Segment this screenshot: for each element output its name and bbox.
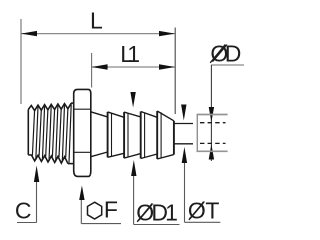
arrowhead L1 left <box>92 64 108 69</box>
svg-text:L1: L1 <box>120 41 140 67</box>
leader line F <box>80 196 82 224</box>
leader line C <box>36 180 38 223</box>
barb cone slopes bottom <box>91 152 107 157</box>
arrowhead C <box>34 166 39 183</box>
stub bottom line <box>175 143 194 145</box>
label C (thread size callout) <box>15 166 39 224</box>
label shelf line F <box>81 223 121 225</box>
stub top line <box>175 123 194 125</box>
shank line top <box>71 102 74 104</box>
diameter symbol slash extender OD <box>210 45 225 63</box>
dimension OT (stub/tube diameter) <box>181 105 220 224</box>
hex face edge upper <box>74 108 91 110</box>
arrowhead L left <box>21 31 37 36</box>
dimension line L1 <box>92 66 175 68</box>
thread crest zigzag top <box>28 103 71 110</box>
tube outer wall bottom <box>197 150 228 152</box>
thread crest zigzag bottom <box>28 155 68 164</box>
hex nut outline <box>74 89 91 176</box>
arrowhead OD up <box>209 144 214 160</box>
dimension L1 <box>92 41 175 88</box>
diameter symbol slash extender OD1 <box>137 204 152 222</box>
hose barb section <box>91 111 174 159</box>
label shelf line OD1 <box>134 224 180 226</box>
hex face edge lower <box>74 151 91 153</box>
end stub <box>175 124 194 144</box>
diameter symbol slash extender OT <box>189 202 204 220</box>
label F (hex flats callout) <box>79 186 121 224</box>
hidden line tube bore top <box>200 122 226 124</box>
dimension line L <box>22 33 175 35</box>
arrowhead L right <box>159 31 175 36</box>
extension line left end of L1 <box>91 53 93 88</box>
shank line bottom <box>68 163 74 165</box>
hex nut <box>74 89 91 176</box>
thread flank lines <box>32 110 34 156</box>
extension line shared right end of L and L1 <box>174 28 176 115</box>
dimension OD (tube inner diameter) <box>209 41 244 161</box>
svg-text:F: F <box>104 197 118 223</box>
arrowhead F <box>79 186 84 201</box>
dimension L <box>21 8 175 104</box>
thread end face left <box>27 110 29 155</box>
hexagon icon <box>88 202 102 219</box>
label shelf line C <box>17 222 37 224</box>
threaded male end <box>28 103 74 164</box>
arrowhead OT up <box>182 147 187 163</box>
dimension OD1 (barb diameter) <box>130 92 179 226</box>
hidden line tube bore bottom <box>200 142 226 144</box>
barb cone slopes top <box>91 112 107 117</box>
svg-text:C: C <box>15 197 32 223</box>
tube cut end <box>196 114 198 152</box>
tube outer wall top <box>197 114 228 116</box>
label shelf line OT <box>185 221 221 223</box>
barb back edges <box>111 113 113 156</box>
svg-text:ØD: ØD <box>210 41 241 67</box>
tube cross-section <box>197 114 228 152</box>
arrowhead OD1 down <box>130 92 135 108</box>
label shelf line OD <box>211 64 244 66</box>
arrowhead OT down <box>181 105 186 121</box>
leader line OD1 <box>133 175 135 225</box>
leader line OD <box>210 65 212 161</box>
barb cone end face <box>173 121 175 155</box>
leader line OT <box>184 162 186 222</box>
arrowhead L1 right <box>159 64 175 69</box>
svg-text:L: L <box>90 8 103 34</box>
barb sharp edges <box>107 112 109 157</box>
arrowhead OD down <box>209 107 214 122</box>
svg-text:ØD1: ØD1 <box>136 200 178 226</box>
extension line left end of L <box>20 19 22 104</box>
arrowhead OD1 up <box>131 160 136 176</box>
